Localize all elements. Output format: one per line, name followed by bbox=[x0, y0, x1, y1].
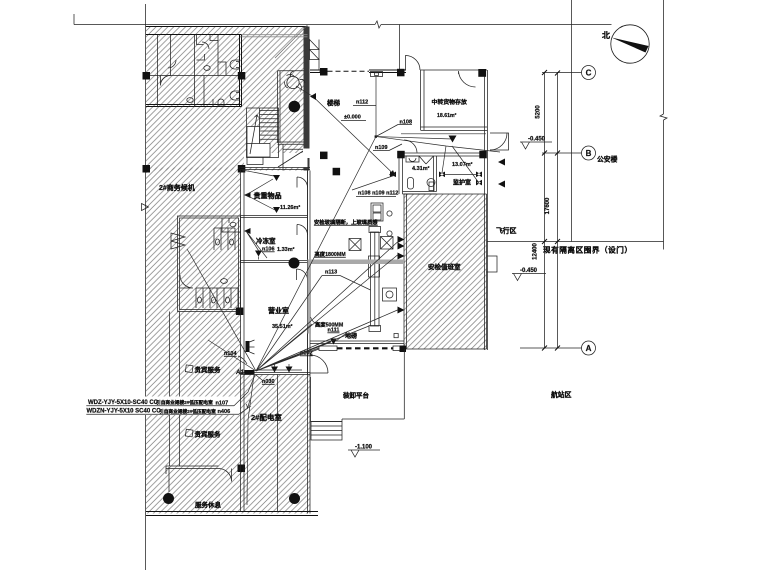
wires valuables room bbox=[242, 170, 275, 210]
feeder leader to panel bbox=[234, 375, 255, 414]
sliding door dashed bbox=[319, 346, 406, 353]
thick east wall of left building bbox=[304, 27, 310, 171]
wires from panel A1 bbox=[256, 242, 398, 371]
svg-text:n112: n112 bbox=[356, 100, 368, 106]
building top wall bbox=[146, 26, 308, 28]
svg-text:C: C bbox=[586, 69, 592, 78]
strip top wall bbox=[241, 168, 311, 170]
building bottom wall bbox=[146, 512, 318, 516]
svg-text:安检玻璃隔断，上玻璃质感: 安检玻璃隔断，上玻璃质感 bbox=[314, 218, 378, 226]
strip west wall bbox=[241, 170, 245, 375]
column circle in shaft bbox=[289, 101, 301, 113]
toilet middle stalls upper bbox=[214, 228, 235, 250]
level marker -1.100 bbox=[348, 445, 380, 458]
x-box 1 bbox=[349, 239, 361, 251]
break symbol on top line bbox=[375, 21, 381, 28]
grid line C bbox=[542, 72, 582, 74]
devices on east wall bbox=[498, 159, 505, 188]
valuables room door arc bbox=[297, 177, 308, 188]
svg-text:n109: n109 bbox=[375, 145, 388, 151]
toilet fixtures top block bbox=[161, 42, 240, 106]
distribution panel A1 bbox=[245, 370, 255, 375]
wall device valuables bbox=[244, 192, 251, 198]
elevator shaft room walls bbox=[278, 71, 308, 171]
svg-text:现有隔离区围界（设门）: 现有隔离区围界（设门） bbox=[543, 245, 633, 255]
svg-text:监护室: 监护室 bbox=[453, 179, 471, 187]
canopy line bbox=[399, 25, 401, 71]
svg-text:n113: n113 bbox=[325, 270, 337, 276]
svg-text:引自商业裙楼2#低压配电室: 引自商业裙楼2#低压配电室 bbox=[156, 399, 213, 406]
svg-text:安检值班室: 安检值班室 bbox=[428, 262, 461, 271]
storage room inner door arc bbox=[459, 71, 476, 87]
svg-text:高度1800MM: 高度1800MM bbox=[315, 250, 347, 258]
lavatory bbox=[406, 156, 419, 162]
svg-text:12400: 12400 bbox=[533, 242, 539, 259]
svg-text:WDZ-YJY-5X10-SC40 CC: WDZ-YJY-5X10-SC40 CC bbox=[88, 400, 159, 406]
column corridor west bbox=[320, 152, 328, 160]
column top wall mid bbox=[397, 69, 405, 77]
table rect bbox=[383, 288, 397, 301]
svg-text:飞行区: 飞行区 bbox=[496, 226, 517, 235]
dimension ticks bbox=[542, 70, 560, 351]
door to platform bbox=[310, 355, 328, 373]
toilet block middle : outer walls bbox=[178, 216, 241, 312]
revolving door symbol bbox=[171, 233, 185, 249]
x-box 2 bbox=[381, 237, 394, 250]
toilet middle door arc bbox=[180, 275, 193, 288]
wall devices on duty room west wall bbox=[398, 236, 405, 314]
svg-text:引自商业裙楼2#低压配电室: 引自商业裙楼2#低压配电室 bbox=[159, 408, 216, 415]
exterior stoop right bbox=[490, 133, 509, 150]
top wall with dashed portion bbox=[310, 70, 406, 73]
freezer light device bbox=[255, 251, 262, 257]
speaker on west wall bbox=[246, 340, 255, 354]
glass partition gray bar bbox=[308, 260, 405, 265]
svg-text:17600: 17600 bbox=[545, 197, 551, 214]
wire below storage room bbox=[401, 133, 486, 135]
door gap in thick east wall bbox=[303, 149, 310, 159]
opening arrow on west wall bbox=[142, 204, 149, 211]
south wall of hall bbox=[310, 341, 404, 344]
svg-text:2#配电室: 2#配电室 bbox=[251, 412, 282, 422]
column rooms right bbox=[479, 151, 487, 159]
valuables room bottom wall bbox=[241, 216, 308, 218]
freezer room bottom wall bbox=[241, 261, 308, 263]
north compass bbox=[602, 25, 649, 63]
fence line (isolation boundary) bbox=[487, 241, 664, 243]
east wall lower double line bbox=[308, 171, 311, 514]
lights in valuables room bbox=[273, 175, 280, 213]
svg-text:服务休息: 服务休息 bbox=[195, 500, 222, 509]
door at storage entrance bbox=[406, 56, 421, 71]
revolving door at hall north-west bbox=[310, 40, 320, 71]
grid line B bbox=[542, 152, 582, 154]
svg-text:A: A bbox=[586, 344, 592, 353]
grid line vertical bbox=[571, 0, 573, 242]
small gray post bbox=[308, 264, 312, 334]
level marker -0.450 lower bbox=[512, 268, 546, 281]
freezer room door arc bbox=[297, 225, 308, 236]
svg-text:冷冻室: 冷冻室 bbox=[256, 236, 276, 245]
toilet small room bbox=[408, 178, 414, 190]
device on west wall of hall bbox=[310, 93, 316, 100]
column top wall left bbox=[320, 68, 328, 76]
svg-text:贵宾服务: 贵宾服务 bbox=[195, 430, 222, 439]
bump on east side of duty room bbox=[487, 256, 498, 272]
wire across nurse room bbox=[442, 146, 479, 183]
svg-text:11.26m²: 11.26m² bbox=[280, 204, 300, 211]
site boundary vertical line left bbox=[145, 4, 147, 570]
svg-text:5200: 5200 bbox=[536, 105, 542, 119]
svg-text:13.07m²: 13.07m² bbox=[452, 161, 473, 168]
freezer wall device bbox=[244, 228, 251, 234]
grid bubble A bbox=[582, 341, 596, 355]
grid bubble C bbox=[582, 66, 596, 80]
svg-text:贵重物品: 贵重物品 bbox=[254, 191, 282, 200]
svg-text:n111: n111 bbox=[328, 328, 340, 334]
strip east wall bbox=[307, 171, 309, 375]
svg-text:楼梯: 楼梯 bbox=[327, 98, 341, 107]
door arc corridor to rooms bbox=[404, 140, 417, 153]
wires in hatched area left bbox=[187, 86, 313, 371]
dimension line 2 bbox=[557, 73, 559, 349]
exhaust fan symbol bbox=[285, 71, 306, 92]
light on south wall bbox=[330, 339, 337, 345]
door swing small room bbox=[419, 156, 434, 164]
arrow light storage bbox=[449, 136, 457, 143]
svg-text:±0.000: ±0.000 bbox=[344, 115, 361, 121]
sink middle toilet bbox=[221, 279, 228, 284]
hatched existing building middle block bbox=[146, 168, 241, 375]
column circle bottom left bbox=[163, 493, 174, 504]
wall west of distribution room bbox=[241, 375, 245, 512]
wire to n111 bbox=[336, 333, 347, 342]
svg-text:18.61m²: 18.61m² bbox=[437, 113, 457, 119]
security duty room borders bbox=[404, 194, 487, 349]
site boundary top horizontal line bbox=[74, 14, 612, 25]
wire from group label bbox=[352, 176, 394, 191]
svg-text:中转货物存放: 中转货物存放 bbox=[432, 98, 467, 106]
svg-text:2#商务候机: 2#商务候机 bbox=[159, 183, 195, 192]
wire from node to nurse bbox=[376, 137, 500, 153]
small circles equip bbox=[387, 211, 392, 216]
panel row wall bbox=[241, 373, 311, 375]
door arc small room bbox=[219, 469, 232, 482]
hatched existing building bottom block bbox=[146, 375, 310, 514]
column squares left building bbox=[143, 72, 151, 80]
column top wall right bbox=[478, 69, 486, 77]
wire junction node bbox=[375, 135, 377, 137]
toilet block top : mid wall bbox=[146, 75, 242, 77]
svg-text:营业室: 营业室 bbox=[268, 306, 289, 315]
lights near panel bbox=[256, 364, 302, 373]
svg-text:公安楼: 公安楼 bbox=[597, 155, 618, 164]
grid bubble B bbox=[582, 146, 596, 160]
east wall of new building bbox=[485, 70, 488, 350]
svg-text:-1.100: -1.100 bbox=[355, 445, 373, 451]
svg-text:35.51m²: 35.51m² bbox=[272, 323, 293, 330]
svg-text:B: B bbox=[586, 149, 592, 158]
hatched security duty room bbox=[404, 194, 487, 349]
toilet block top : partitions bbox=[158, 35, 219, 107]
svg-text:贵宾服务: 贵宾服务 bbox=[195, 365, 222, 374]
svg-text:北: 北 bbox=[602, 30, 610, 40]
svg-text:n030: n030 bbox=[262, 379, 275, 385]
conveyor belt bbox=[369, 227, 381, 332]
svg-text:n106: n106 bbox=[262, 247, 275, 253]
label vip service 1 bbox=[185, 365, 221, 374]
level marker -0.450 upper bbox=[520, 137, 552, 150]
upper wall band across to east wall bbox=[242, 35, 308, 37]
grid line A bbox=[520, 347, 582, 349]
L-wall small room bbox=[166, 466, 219, 474]
small box at weighbridge bbox=[394, 334, 398, 338]
svg-text:A1: A1 bbox=[235, 370, 244, 376]
device bowties nurse room bbox=[439, 172, 445, 178]
storage room walls bbox=[421, 70, 488, 131]
xray machine bbox=[371, 203, 383, 221]
column circle bottom right bbox=[289, 493, 300, 504]
diagonal in shaft upper bbox=[275, 25, 308, 58]
svg-text:航站区: 航站区 bbox=[551, 390, 572, 399]
wire n113 bbox=[256, 276, 371, 372]
staircase bbox=[247, 108, 279, 158]
handwash device bbox=[427, 179, 435, 191]
break symbol on right line bbox=[660, 114, 667, 120]
svg-text:1.33m²: 1.33m² bbox=[277, 246, 295, 253]
main diagonal wire bbox=[256, 97, 453, 372]
svg-text:WDZN-YJY-5X10 SC40 CC: WDZN-YJY-5X10 SC40 CC bbox=[87, 409, 162, 415]
platform outline bbox=[311, 349, 405, 422]
site boundary vertical line right bbox=[663, 0, 665, 250]
svg-text:-0.450: -0.450 bbox=[520, 268, 538, 274]
platform stairs bbox=[311, 422, 342, 441]
rooms row walls bbox=[399, 153, 480, 194]
corridor walls bottom block bbox=[169, 312, 180, 493]
label vip service 2 bbox=[185, 429, 221, 438]
meter box on top wall bbox=[371, 72, 383, 77]
wire node vertical to meter bbox=[375, 77, 377, 137]
white landing corridor above strip bbox=[244, 153, 308, 168]
svg-text:装卸平台: 装卸平台 bbox=[342, 391, 370, 400]
svg-text:4.31m²: 4.31m² bbox=[412, 165, 430, 172]
feeder text white mask bbox=[86, 397, 240, 416]
wire down from panel bbox=[247, 375, 255, 505]
business room door arc bbox=[297, 269, 308, 280]
column rooms left bbox=[397, 151, 405, 159]
toilet block top : outer walls bbox=[146, 35, 242, 107]
dimension line 1 bbox=[544, 73, 546, 349]
wall stubs top block bbox=[197, 35, 227, 76]
small wc room middle block bbox=[222, 218, 241, 232]
hatched existing building top block bbox=[146, 27, 308, 171]
svg-text:n108 n109 n112: n108 n109 n112 bbox=[358, 191, 398, 197]
svg-text:-0.450: -0.450 bbox=[528, 137, 546, 143]
wall mid bottom block bbox=[277, 375, 279, 512]
column circle on freezer wall bbox=[289, 258, 300, 269]
toilet middle stalls lower bbox=[196, 288, 238, 308]
column corridor inner bbox=[333, 168, 341, 176]
